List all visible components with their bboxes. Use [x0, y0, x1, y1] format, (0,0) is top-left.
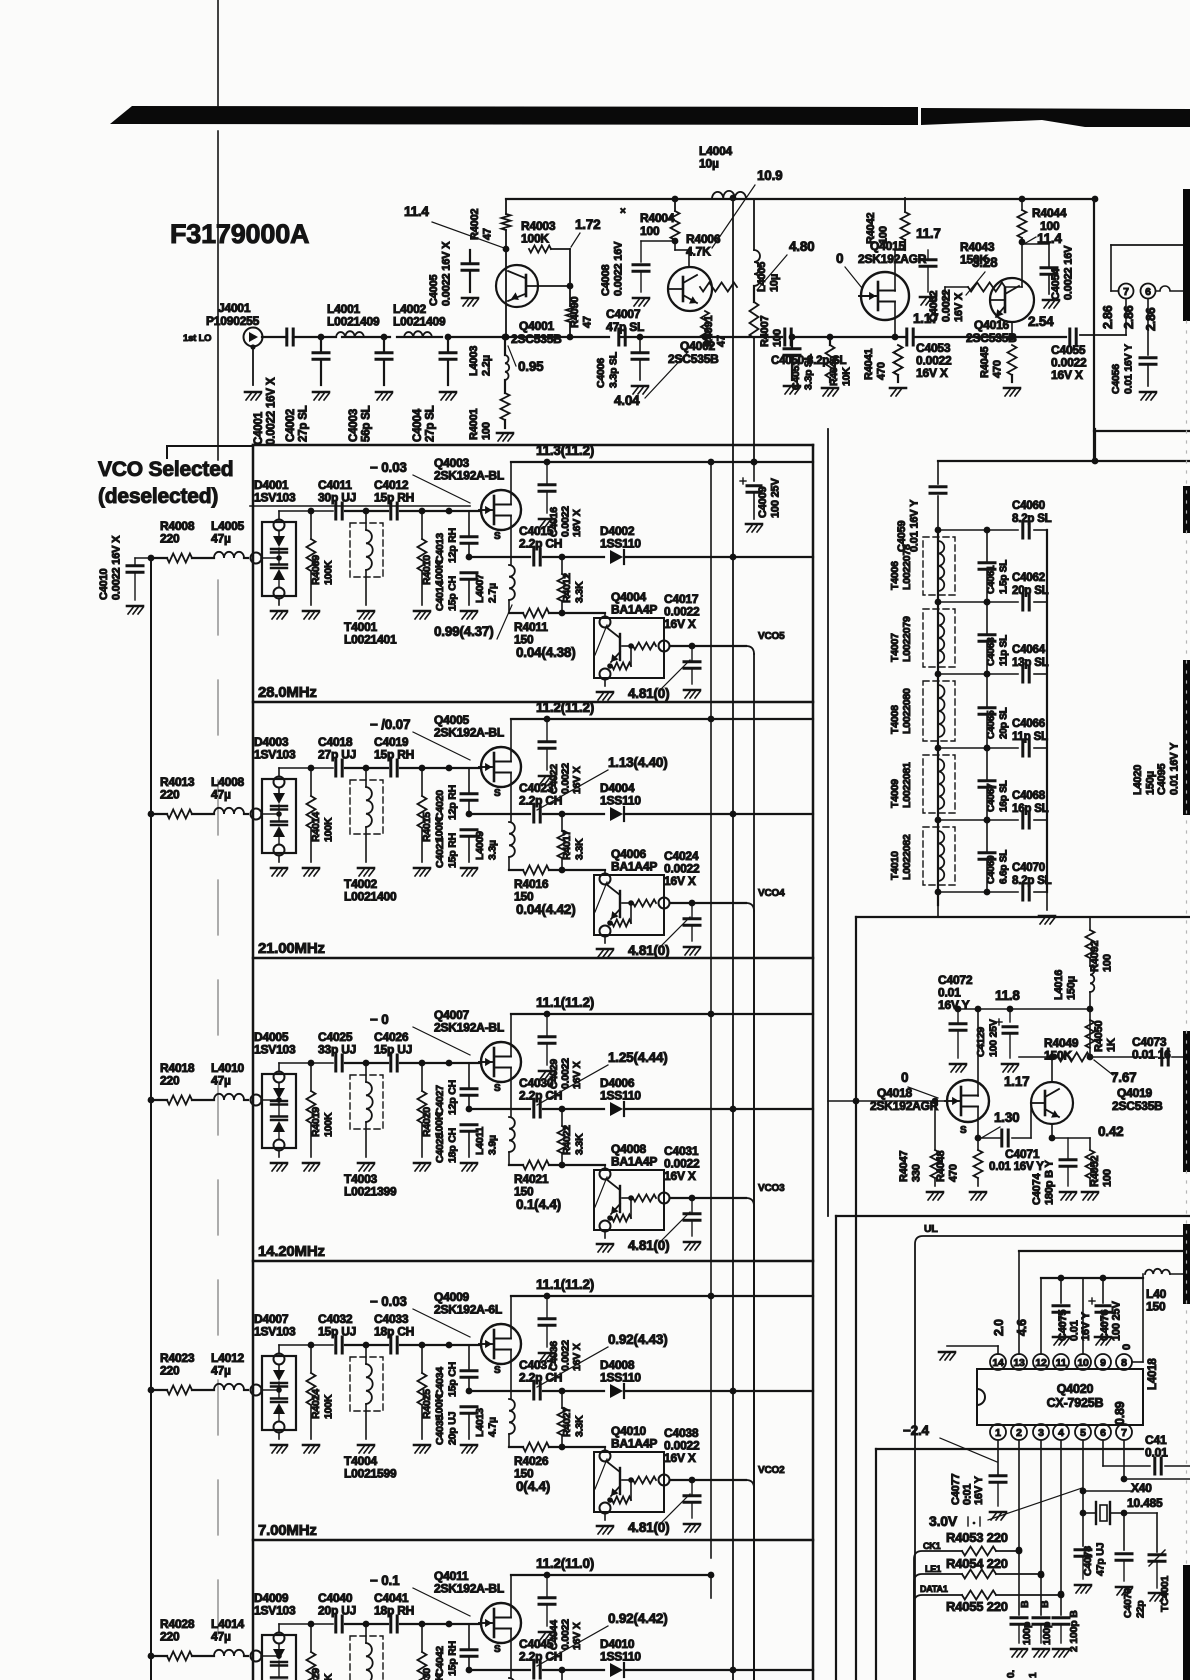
svg-text:16V X: 16V X	[664, 1169, 696, 1183]
svg-text:Q4018: Q4018	[877, 1086, 913, 1100]
svg-text:R4022: R4022	[561, 1125, 573, 1155]
svg-text:220: 220	[160, 788, 180, 802]
svg-text:2SK192A-BL: 2SK192A-BL	[434, 726, 504, 740]
svg-text:P1090255: P1090255	[206, 314, 260, 328]
svg-text:Q4002: Q4002	[680, 339, 716, 353]
svg-text:L4007: L4007	[474, 574, 486, 603]
svg-text:1SS110: 1SS110	[600, 1371, 641, 1385]
svg-text:− /0.07: − /0.07	[370, 717, 410, 732]
svg-text:C4076: C4076	[1099, 1310, 1111, 1341]
svg-text:10µ: 10µ	[769, 274, 781, 292]
svg-text:C4065: C4065	[986, 710, 997, 739]
svg-text:Q4019: Q4019	[1117, 1086, 1153, 1100]
svg-text:4.80: 4.80	[789, 239, 814, 254]
svg-text:1SV103: 1SV103	[254, 1325, 296, 1339]
svg-text:100: 100	[878, 226, 890, 244]
svg-text:150µ: 150µ	[1145, 771, 1157, 795]
svg-text:L0021409: L0021409	[327, 315, 380, 329]
svg-text:2.2p CH: 2.2p CH	[519, 1371, 562, 1385]
svg-text:12p RH: 12p RH	[447, 528, 459, 563]
svg-text:2SK192A-BL: 2SK192A-BL	[434, 1021, 504, 1035]
svg-text:16V X: 16V X	[664, 617, 696, 631]
svg-text:C4069: C4069	[986, 855, 997, 884]
svg-text:100: 100	[1102, 1169, 1114, 1187]
svg-text:47µ: 47µ	[211, 1630, 231, 1644]
svg-text:T4010: T4010	[889, 851, 901, 880]
svg-text:1K: 1K	[1106, 1038, 1118, 1052]
svg-text:R4047: R4047	[898, 1151, 910, 1182]
svg-text:27p SL: 27p SL	[298, 405, 310, 442]
svg-text:0.: 0.	[1006, 1670, 1017, 1678]
svg-text:11p SL: 11p SL	[1012, 731, 1048, 743]
svg-text:100: 100	[772, 329, 784, 347]
svg-text:L0021599: L0021599	[344, 1467, 397, 1481]
svg-text:B: B	[1039, 1600, 1051, 1608]
svg-text:L0022080: L0022080	[901, 688, 913, 734]
svg-text:R4029: R4029	[310, 1668, 322, 1680]
svg-text:S: S	[494, 788, 501, 799]
svg-text:150µ: 150µ	[1066, 976, 1078, 1000]
svg-text:C4003: C4003	[348, 409, 360, 442]
svg-text:C4034: C4034	[434, 1367, 446, 1397]
svg-text:VCO2: VCO2	[758, 1465, 785, 1476]
svg-text:L0022078: L0022078	[901, 544, 913, 590]
svg-text:4.81(0): 4.81(0)	[628, 1238, 669, 1253]
svg-text:22p: 22p	[1135, 1601, 1147, 1619]
svg-text:R4015: R4015	[421, 812, 433, 842]
svg-text:R4030: R4030	[421, 1668, 433, 1680]
svg-text:− 0.1: − 0.1	[370, 1573, 400, 1588]
svg-text:16p SL: 16p SL	[1012, 803, 1049, 815]
svg-text:C4061: C4061	[986, 565, 997, 594]
svg-text:C4001: C4001	[253, 411, 265, 445]
svg-text:CX-7925B: CX-7925B	[1047, 1396, 1104, 1410]
svg-text:L0022082: L0022082	[901, 834, 913, 880]
svg-text:3.3K: 3.3K	[574, 1133, 586, 1155]
svg-text:F3179000A: F3179000A	[170, 219, 309, 249]
svg-text:0.92(4.42): 0.92(4.42)	[608, 1611, 668, 1626]
svg-text:10µ: 10µ	[699, 157, 719, 171]
svg-text:47p SL: 47p SL	[606, 320, 644, 334]
svg-text:C4007: C4007	[606, 307, 641, 321]
svg-text:11.1(11.2): 11.1(11.2)	[536, 995, 594, 1010]
svg-text:C4042: C4042	[434, 1646, 446, 1676]
svg-text:8.2p SL: 8.2p SL	[1012, 875, 1052, 887]
svg-text:C4056: C4056	[1110, 364, 1122, 394]
svg-text:14: 14	[992, 1357, 1004, 1369]
svg-text:L4016: L4016	[1053, 970, 1065, 1000]
svg-text:C4067: C4067	[986, 783, 997, 812]
svg-text:L0022079: L0022079	[901, 616, 913, 662]
svg-text:2.86: 2.86	[1144, 307, 1158, 331]
svg-text:0.0022 16V X: 0.0022 16V X	[266, 377, 278, 445]
svg-text:0.0022: 0.0022	[560, 1619, 572, 1650]
svg-text:10.9: 10.9	[757, 168, 782, 183]
svg-text:C4062: C4062	[1012, 572, 1045, 584]
svg-text:0.01 16V Y: 0.01 16V Y	[989, 1161, 1044, 1173]
svg-text:S: S	[494, 1365, 501, 1376]
svg-text:15p CH: 15p CH	[447, 576, 459, 611]
svg-text:16V Y: 16V Y	[973, 1475, 985, 1505]
svg-text:7.00MHz: 7.00MHz	[258, 1522, 317, 1539]
svg-text:11.8: 11.8	[995, 988, 1020, 1003]
svg-text:C4006: C4006	[595, 358, 607, 388]
svg-text:33p UJ: 33p UJ	[318, 1043, 356, 1057]
svg-text:3.3K: 3.3K	[574, 1415, 586, 1437]
svg-text:R4052: R4052	[1089, 1156, 1101, 1187]
svg-text:16V X: 16V X	[571, 509, 583, 537]
svg-text:−2.4: −2.4	[903, 1423, 930, 1438]
svg-text:R4048: R4048	[935, 1151, 947, 1182]
svg-text:27p UJ: 27p UJ	[318, 748, 356, 762]
svg-text:1.25(4.44): 1.25(4.44)	[608, 1050, 668, 1065]
svg-text:16V X: 16V X	[953, 292, 965, 322]
svg-text:R4001: R4001	[468, 409, 480, 440]
svg-text:2SK192A-BL: 2SK192A-BL	[434, 469, 504, 483]
svg-text:15p UJ: 15p UJ	[374, 1043, 412, 1057]
svg-text:C4028: C4028	[434, 1133, 446, 1163]
svg-text:R4055 220: R4055 220	[946, 1599, 1008, 1614]
svg-text:Q4001: Q4001	[519, 319, 555, 333]
svg-text:15p RH: 15p RH	[374, 748, 414, 762]
svg-text:330: 330	[911, 1164, 923, 1182]
svg-text:15p RH: 15p RH	[447, 1641, 459, 1676]
svg-text:0.92(4.43): 0.92(4.43)	[608, 1332, 668, 1347]
svg-text:S: S	[494, 1083, 501, 1094]
svg-text:0.0022: 0.0022	[560, 506, 572, 537]
svg-text:L4020: L4020	[1132, 765, 1144, 795]
svg-text:4.7µ: 4.7µ	[487, 1417, 499, 1437]
svg-text:15p UJ: 15p UJ	[318, 1325, 356, 1339]
svg-text:1SV103: 1SV103	[254, 1043, 296, 1057]
svg-text:(deselected): (deselected)	[98, 485, 218, 508]
svg-text:3.9µ: 3.9µ	[487, 1135, 499, 1155]
svg-text:C4129: C4129	[975, 1027, 987, 1057]
svg-text:4.81(0): 4.81(0)	[628, 943, 669, 958]
svg-text:R4019: R4019	[310, 1107, 322, 1137]
svg-text:220: 220	[160, 1630, 180, 1644]
svg-text:T4007: T4007	[889, 633, 901, 662]
svg-text:11.1(11.2): 11.1(11.2)	[536, 1277, 594, 1292]
svg-text:0: 0	[836, 251, 843, 266]
svg-text:100: 100	[640, 224, 660, 238]
svg-text:3.0V: 3.0V	[929, 1513, 958, 1529]
svg-text:6: 6	[1100, 1427, 1106, 1439]
svg-text:1.17: 1.17	[1004, 1074, 1029, 1089]
svg-text:0:01: 0:01	[962, 1484, 974, 1505]
svg-text:Q4020: Q4020	[1057, 1382, 1094, 1396]
svg-text:47: 47	[582, 316, 594, 328]
svg-text:VCO4: VCO4	[758, 888, 785, 899]
svg-text:1SV103: 1SV103	[254, 748, 296, 762]
svg-text:VCO3: VCO3	[758, 1183, 785, 1194]
svg-text:16V Y: 16V Y	[1080, 1311, 1092, 1341]
svg-text:220: 220	[160, 532, 180, 546]
svg-text:L0021400: L0021400	[344, 890, 397, 904]
svg-text:C4052: C4052	[928, 291, 940, 322]
svg-text:C4063: C4063	[986, 637, 997, 666]
svg-text:BA1A4P: BA1A4P	[611, 1155, 657, 1169]
svg-text:C4071: C4071	[1005, 1147, 1040, 1161]
svg-text:7: 7	[1121, 1427, 1127, 1439]
svg-text:4.04: 4.04	[614, 393, 640, 408]
svg-text:100p: 100p	[1041, 1622, 1053, 1645]
svg-text:R4004: R4004	[640, 211, 675, 225]
svg-text:C4005: C4005	[428, 275, 440, 306]
svg-text:2.54: 2.54	[1028, 314, 1054, 329]
svg-text:3.3K: 3.3K	[574, 581, 586, 603]
svg-text:C4074: C4074	[1031, 1173, 1043, 1205]
svg-text:S: S	[494, 1644, 501, 1655]
svg-text:470: 470	[876, 362, 888, 380]
svg-text:0.01: 0.01	[1069, 1320, 1081, 1341]
svg-text:2SK192AGR: 2SK192AGR	[858, 252, 927, 266]
svg-text:R4054 220: R4054 220	[946, 1556, 1008, 1571]
svg-text:18p CH: 18p CH	[447, 1128, 459, 1163]
svg-text:11.4: 11.4	[404, 204, 429, 219]
svg-text:11p SL: 11p SL	[999, 635, 1010, 666]
svg-text:12p CH: 12p CH	[447, 1080, 459, 1115]
svg-text:7.67: 7.67	[1111, 1070, 1136, 1085]
svg-text:100 25V: 100 25V	[988, 1019, 1000, 1057]
svg-text:3.28: 3.28	[972, 255, 998, 270]
svg-text:2SC535B: 2SC535B	[668, 352, 719, 366]
svg-text:20p SL: 20p SL	[1012, 585, 1049, 597]
svg-text:R4044: R4044	[1032, 206, 1067, 220]
svg-text:0.0022: 0.0022	[560, 763, 572, 794]
svg-text:L4003: L4003	[468, 346, 480, 376]
svg-text:R4020: R4020	[421, 1107, 433, 1137]
svg-text:18p CH: 18p CH	[374, 1325, 414, 1339]
svg-text:1: 1	[1028, 1672, 1039, 1678]
svg-text:1.13(4.40): 1.13(4.40)	[608, 755, 668, 770]
svg-text:4.81(0): 4.81(0)	[628, 1520, 669, 1535]
svg-text:3.3p SL: 3.3p SL	[608, 351, 620, 388]
svg-text:3.3K: 3.3K	[574, 838, 586, 860]
svg-text:47µ: 47µ	[211, 1364, 231, 1378]
svg-text:0.04(4.38): 0.04(4.38)	[516, 645, 576, 660]
svg-text:0.95: 0.95	[518, 359, 544, 374]
svg-text:4: 4	[1058, 1427, 1064, 1439]
svg-text:47µ: 47µ	[211, 1074, 231, 1088]
svg-text:C4051: C4051	[790, 360, 802, 390]
svg-text:16V Y: 16V Y	[938, 998, 970, 1012]
svg-text:C4070: C4070	[1012, 862, 1045, 874]
svg-text:220: 220	[160, 1074, 180, 1088]
svg-text:1SS110: 1SS110	[600, 537, 641, 551]
svg-text:C4021: C4021	[434, 838, 446, 868]
svg-text:L4005: L4005	[756, 262, 768, 292]
svg-text:R4027: R4027	[561, 1407, 573, 1437]
svg-text:R4090: R4090	[569, 297, 581, 328]
svg-text:0: 0	[901, 1070, 908, 1085]
svg-text:20p SL: 20p SL	[999, 707, 1010, 739]
svg-text:13p SL: 13p SL	[1012, 657, 1049, 669]
svg-text:100K: 100K	[323, 817, 335, 842]
svg-text:100: 100	[481, 422, 493, 440]
svg-text:0.0022 16V X: 0.0022 16V X	[441, 241, 453, 306]
svg-text:8: 8	[1121, 1357, 1127, 1369]
svg-text:R4040: R4040	[828, 356, 840, 386]
svg-text:3.3p SL: 3.3p SL	[803, 353, 815, 390]
svg-text:0.0022: 0.0022	[941, 289, 953, 322]
svg-text:0.99(4.37): 0.99(4.37)	[434, 624, 494, 639]
svg-text:7: 7	[1123, 286, 1129, 298]
svg-text:11.3(11.2): 11.3(11.2)	[536, 443, 594, 458]
svg-text:15p RH: 15p RH	[447, 833, 459, 868]
svg-text:C4002: C4002	[285, 409, 297, 442]
svg-text:BA1A4P: BA1A4P	[611, 860, 657, 874]
svg-text:0.0022: 0.0022	[560, 1058, 572, 1089]
svg-text:2SC535B: 2SC535B	[966, 331, 1017, 345]
svg-text:2.2p CH: 2.2p CH	[519, 1089, 562, 1103]
svg-text:C4060: C4060	[1012, 500, 1045, 512]
svg-text:T4008: T4008	[889, 705, 901, 734]
svg-text:R4014: R4014	[310, 812, 322, 842]
svg-text:0.01 16: 0.01 16	[1132, 1048, 1171, 1062]
svg-text:1SS110: 1SS110	[600, 794, 641, 808]
svg-text:T4006: T4006	[889, 561, 901, 590]
svg-text:1SV103: 1SV103	[254, 1604, 296, 1618]
svg-text:BA1A4P: BA1A4P	[611, 1437, 657, 1451]
svg-text:L4011: L4011	[474, 1126, 486, 1155]
svg-text:47µ: 47µ	[211, 788, 231, 802]
svg-text:C4066: C4066	[1012, 718, 1045, 730]
svg-text:R4002: R4002	[469, 209, 481, 240]
svg-text:1: 1	[995, 1427, 1001, 1439]
svg-text:9: 9	[1100, 1357, 1106, 1369]
svg-text:16V X: 16V X	[664, 874, 696, 888]
svg-text:C4010: C4010	[98, 569, 110, 600]
svg-text:8.2p SL: 8.2p SL	[1012, 513, 1052, 525]
svg-text:R4009: R4009	[310, 555, 322, 585]
svg-text:1st LO: 1st LO	[183, 333, 211, 344]
svg-text:16V X: 16V X	[916, 366, 948, 380]
svg-text:1.5p SL: 1.5p SL	[999, 560, 1010, 594]
svg-text:0(4.4): 0(4.4)	[516, 1479, 550, 1494]
svg-text:C4008: C4008	[600, 265, 612, 296]
svg-text:R4010: R4010	[421, 555, 433, 585]
svg-text:47: 47	[482, 228, 494, 240]
svg-text:C4068: C4068	[1012, 790, 1046, 802]
svg-text:C4077: C4077	[950, 1474, 962, 1505]
svg-text:10: 10	[1077, 1357, 1089, 1369]
svg-text:CK1: CK1	[923, 1541, 941, 1551]
svg-text:R4025: R4025	[421, 1389, 433, 1419]
svg-text:10K: 10K	[841, 367, 853, 386]
svg-text:C4095: C4095	[1156, 764, 1168, 795]
svg-text:0.01 16V Y: 0.01 16V Y	[1169, 742, 1181, 795]
svg-text:18p RH: 18p RH	[374, 1604, 414, 1618]
svg-text:11.7: 11.7	[916, 226, 941, 241]
svg-text:C4020: C4020	[434, 790, 446, 820]
svg-text:2: 2	[1016, 1427, 1022, 1439]
svg-text:0: 0	[1121, 1344, 1133, 1350]
svg-text:12: 12	[1035, 1357, 1047, 1369]
svg-text:100K: 100K	[521, 232, 549, 246]
svg-text:C4004: C4004	[412, 408, 424, 442]
svg-text:0.01: 0.01	[1145, 1446, 1168, 1460]
svg-text:28.0MHz: 28.0MHz	[258, 684, 317, 701]
svg-text:R4041: R4041	[863, 349, 875, 380]
svg-text:2.2p CH: 2.2p CH	[519, 794, 562, 808]
svg-text:1.30: 1.30	[994, 1110, 1019, 1125]
svg-text:L0021399: L0021399	[344, 1185, 397, 1199]
svg-text:C4079: C4079	[1122, 1588, 1134, 1618]
svg-text:16V X: 16V X	[1051, 368, 1083, 382]
svg-text:1.72: 1.72	[575, 217, 600, 232]
svg-text:C4009: C4009	[757, 487, 769, 518]
svg-text:VCO5: VCO5	[758, 631, 785, 642]
svg-text:100p: 100p	[1021, 1622, 1033, 1645]
svg-text:180p B Y: 180p B Y	[1044, 1159, 1056, 1205]
svg-text:47: 47	[716, 335, 728, 347]
svg-text:DATA1: DATA1	[920, 1584, 948, 1594]
svg-text:TC4001: TC4001	[1159, 1575, 1171, 1612]
svg-text:11: 11	[1056, 1357, 1067, 1369]
svg-text:L4009: L4009	[474, 831, 486, 860]
svg-text:4.81(0): 4.81(0)	[628, 686, 669, 701]
svg-text:B: B	[1019, 1600, 1031, 1608]
svg-text:LE1: LE1	[925, 1564, 941, 1574]
svg-text:10.485: 10.485	[1127, 1496, 1163, 1510]
svg-text:3: 3	[1038, 1427, 1044, 1439]
svg-text:20p UJ: 20p UJ	[447, 1411, 459, 1445]
svg-text:11.2(11.0): 11.2(11.0)	[536, 1556, 594, 1571]
svg-text:2SC535B: 2SC535B	[511, 332, 562, 346]
svg-text:0.1(4.4): 0.1(4.4)	[516, 1197, 561, 1212]
svg-text:C4075: C4075	[1057, 1310, 1069, 1341]
svg-text:R4042: R4042	[865, 213, 877, 244]
svg-text:C4014: C4014	[434, 581, 446, 611]
svg-text:220: 220	[160, 1364, 180, 1378]
svg-text:16p SL: 16p SL	[999, 780, 1010, 812]
svg-text:C4054: C4054	[1050, 268, 1062, 300]
svg-text:L0021409: L0021409	[393, 315, 446, 329]
svg-text:0.89: 0.89	[1113, 1401, 1127, 1425]
svg-text:0.0022 16V: 0.0022 16V	[1063, 245, 1075, 300]
svg-text:L4013: L4013	[474, 1408, 486, 1437]
svg-text:11.2(11.2): 11.2(11.2)	[536, 700, 594, 715]
svg-text:R4092: R4092	[1089, 941, 1101, 972]
svg-text:150: 150	[1146, 1300, 1166, 1314]
svg-text:47p UJ: 47p UJ	[1095, 1542, 1107, 1576]
svg-text:0.01 16V Y: 0.01 16V Y	[909, 499, 921, 552]
svg-text:J4001: J4001	[218, 301, 251, 315]
svg-text:S: S	[960, 1125, 967, 1136]
svg-text:2.2p CH: 2.2p CH	[519, 537, 562, 551]
svg-text:150K: 150K	[1044, 1049, 1072, 1063]
svg-text:2.7µ: 2.7µ	[487, 583, 499, 603]
svg-text:1SS110: 1SS110	[600, 1650, 641, 1664]
svg-text:R4050: R4050	[1093, 1021, 1105, 1052]
svg-text:15p CH: 15p CH	[447, 1362, 459, 1397]
svg-text:14.20MHz: 14.20MHz	[258, 1243, 325, 1260]
svg-text:15p RH: 15p RH	[374, 491, 414, 505]
svg-text:L4018: L4018	[1147, 1358, 1159, 1390]
svg-text:R4053 220: R4053 220	[946, 1530, 1008, 1545]
svg-text:2 100p B: 2 100p B	[1068, 1610, 1080, 1652]
svg-text:470: 470	[992, 360, 1004, 378]
svg-text:BA1A4P: BA1A4P	[611, 603, 657, 617]
svg-text:S: S	[494, 531, 501, 542]
svg-text:27p SL: 27p SL	[425, 405, 437, 442]
svg-text:2.86: 2.86	[1101, 305, 1115, 329]
svg-text:2.2µ: 2.2µ	[481, 355, 493, 376]
svg-text:1SS110: 1SS110	[600, 1089, 641, 1103]
svg-text:0.0022 16V X: 0.0022 16V X	[111, 535, 123, 600]
svg-text:R4024: R4024	[310, 1389, 322, 1419]
